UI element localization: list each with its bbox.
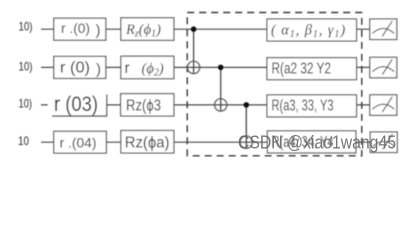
- svg-text:r (03): r (03): [54, 93, 98, 116]
- CNOT q0->q1 vertical: [193, 29, 195, 73]
- svg-text:10): 10): [19, 19, 33, 33]
- wire q1: [41, 66, 370, 68]
- gate box r.(04) q3: [54, 131, 107, 153]
- gate box R(a3,33,Y3) q2: [267, 95, 357, 117]
- CNOT q1 target: [187, 61, 199, 73]
- measurement meter q3: [370, 132, 397, 153]
- CNOT q2 control dot: [244, 102, 250, 108]
- svg-text:r .(04): r .(04): [60, 135, 97, 151]
- gate box Rz(phia) q3: [121, 131, 174, 154]
- gate box R(a2,32,Y2) q1: [267, 58, 357, 80]
- svg-text:Rz(ϕ1): Rz(ϕ1): [125, 22, 161, 40]
- measurement meter q1: [370, 57, 397, 78]
- gate box R(a4,34,Y4) q3: [267, 131, 356, 153]
- CNOT q1 control dot: [218, 65, 224, 71]
- gate box r(0) q1: [54, 56, 106, 78]
- gate box r(03) q2: [48, 93, 107, 116]
- wire q0: [41, 28, 370, 30]
- svg-text:R(a3, 33, Y3: R(a3, 33, Y3: [272, 98, 334, 115]
- entangler dashed box: [187, 13, 362, 156]
- gate box Rz(phi1) q0: [121, 18, 174, 41]
- svg-text:r: r: [125, 60, 130, 77]
- svg-text:10): 10): [19, 59, 33, 73]
- measurement meter q0: [370, 19, 397, 40]
- svg-text:): ): [96, 61, 101, 78]
- svg-text:R(a2 32 Y2: R(a2 32 Y2: [272, 60, 332, 77]
- gate box r.(0) q0: [54, 18, 106, 40]
- CNOT q2 target: [215, 99, 227, 111]
- gate box Rz(phi3) q2: [121, 94, 174, 116]
- CNOT q3 target: [240, 136, 252, 148]
- gate box r(phi2) q1: [121, 56, 174, 78]
- CNOT q2->q3 vertical: [245, 105, 247, 148]
- svg-text:r (0): r (0): [60, 60, 90, 77]
- gate box R(a1,b1,g1) q0: [267, 19, 357, 41]
- wire q2: [41, 104, 370, 106]
- measurement meter q2: [370, 95, 397, 116]
- wire q3: [41, 141, 370, 143]
- svg-text:Rz(ϕ3: Rz(ϕ3: [126, 98, 161, 115]
- svg-text:Rz(ϕa): Rz(ϕa): [125, 135, 170, 152]
- svg-text:(ϕ2): (ϕ2): [142, 61, 164, 79]
- CNOT q1->q2 vertical: [220, 67, 222, 111]
- svg-text:r .(0): r .(0): [61, 21, 90, 36]
- CNOT q0 control dot: [191, 26, 197, 32]
- svg-text:10): 10): [19, 96, 33, 110]
- svg-text:10: 10: [18, 134, 29, 148]
- svg-text:): ): [96, 22, 101, 39]
- svg-text:CSDN @xiao1wang45: CSDN @xiao1wang45: [238, 133, 396, 153]
